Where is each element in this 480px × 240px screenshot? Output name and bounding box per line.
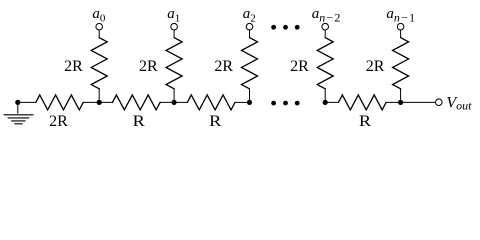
node C: [247, 100, 252, 105]
wire resistor a0 to node A: [98, 89, 100, 103]
resistor 2R vertical an-2: [317, 38, 333, 89]
wire ground to resistor 2R horizontal: [18, 101, 36, 103]
ellipsis dots (bus continuation): [271, 101, 299, 106]
wire node E to output terminal: [401, 101, 436, 103]
wire terminal a1 to resistor: [173, 30, 175, 38]
terminal a0: [96, 23, 103, 30]
wire resistor a1 to node B: [173, 89, 175, 103]
node ground junction: [15, 100, 20, 105]
svg-text:Vout: Vout: [446, 94, 472, 112]
svg-text:2R: 2R: [49, 113, 68, 130]
wire terminal a0 to resistor: [98, 30, 100, 38]
svg-text:2R: 2R: [290, 58, 309, 75]
wire resistor R1 to node B: [160, 101, 174, 103]
svg-text:2R: 2R: [64, 58, 83, 75]
svg-text:an−1: an−1: [386, 6, 415, 24]
svg-text:2R: 2R: [366, 58, 385, 75]
svg-text:a0: a0: [92, 6, 106, 24]
resistor R1: [112, 95, 160, 110]
svg-text:2R: 2R: [214, 58, 233, 75]
resistor 2R vertical a0: [91, 38, 107, 89]
terminal a1: [171, 23, 178, 30]
node D: [323, 100, 328, 105]
wire resistor a2 to node C: [249, 89, 251, 103]
terminal an-1: [397, 23, 404, 30]
wire resistor R3 to node E: [386, 101, 401, 103]
resistor R3: [338, 95, 386, 110]
wire node D to resistor R3: [325, 101, 338, 103]
terminal Vout: [436, 99, 443, 106]
svg-text:a2: a2: [243, 6, 256, 24]
node B: [172, 100, 177, 105]
resistor 2R vertical an-1: [393, 38, 409, 89]
resistor 2R horizontal: [36, 95, 83, 110]
wire terminal an-2 to resistor: [324, 30, 326, 38]
svg-text:R: R: [209, 113, 222, 130]
terminal a2: [246, 23, 253, 30]
wire resistor R2 to node C: [235, 101, 250, 103]
svg-text:a1: a1: [167, 6, 180, 24]
resistor R2: [187, 95, 235, 110]
resistor 2R vertical a2: [242, 38, 258, 89]
wire node A to resistor R1: [99, 101, 112, 103]
ground: [4, 102, 33, 123]
wire resistor an-1 to node E: [400, 89, 402, 103]
resistor 2R vertical a1: [166, 38, 182, 89]
svg-text:2R: 2R: [139, 58, 158, 75]
svg-text:R: R: [359, 113, 372, 130]
svg-text:R: R: [133, 113, 146, 130]
wire resistor to node A: [83, 101, 99, 103]
wire node B to resistor R2: [174, 101, 187, 103]
wire terminal a2 to resistor: [249, 30, 251, 38]
svg-text:an−2: an−2: [312, 6, 341, 24]
terminal an-2: [322, 23, 329, 30]
node A: [97, 100, 102, 105]
ellipsis dots (terminal row continuation): [271, 25, 299, 30]
node E: [398, 100, 403, 105]
wire terminal an-1 to resistor: [400, 30, 402, 38]
wire resistor an-2 to node D: [324, 89, 326, 103]
